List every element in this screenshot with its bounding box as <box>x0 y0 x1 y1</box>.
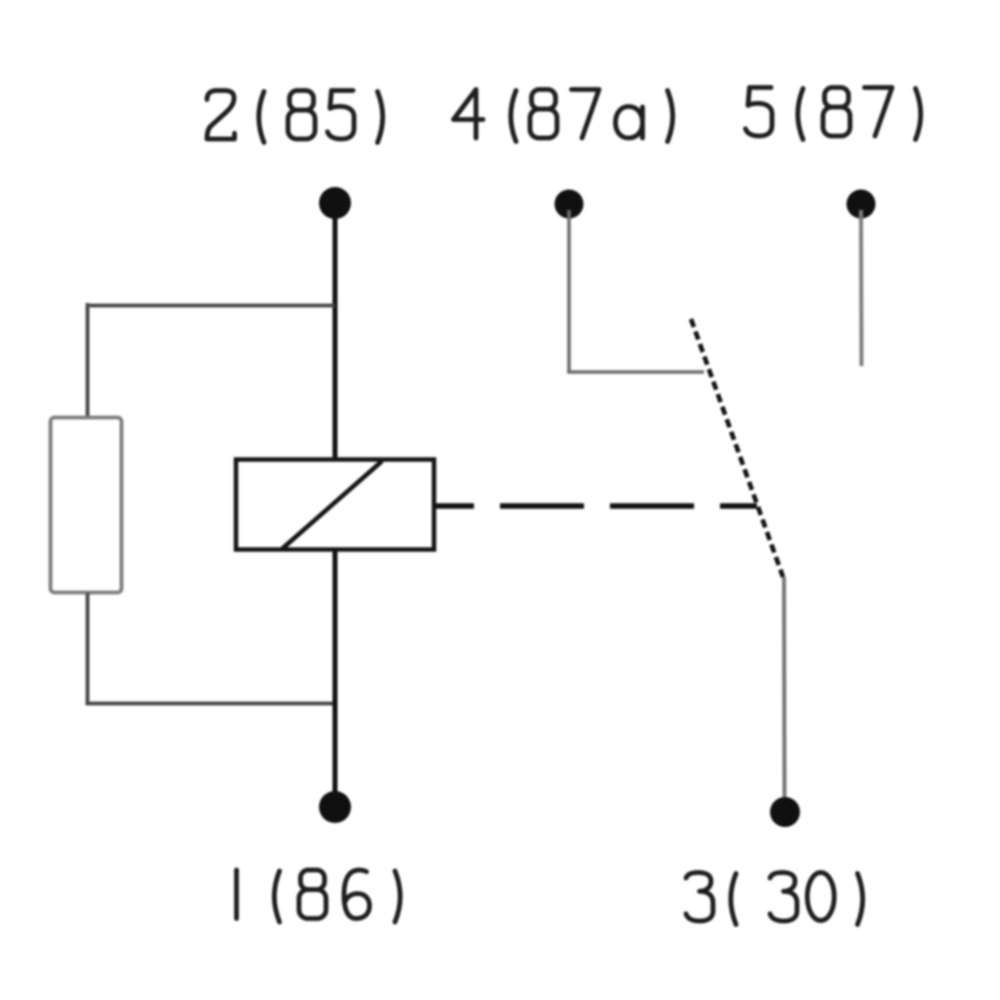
relay coil box <box>236 460 434 550</box>
wire left vertical upper <box>86 303 90 417</box>
node 1 terminal dot <box>319 791 351 823</box>
coil diagonal <box>283 462 381 548</box>
label 4(87a) <box>454 90 673 142</box>
wire blade to pin3 <box>782 577 787 797</box>
label 3(30) <box>686 873 863 925</box>
label 1(86) <box>237 870 401 922</box>
label 2(85) <box>207 91 383 143</box>
node 4 terminal dot <box>555 190 584 219</box>
label 5(87) <box>746 88 921 140</box>
wire left vertical lower <box>86 593 90 705</box>
wire pin4 vertical <box>567 210 571 372</box>
wire coil bottom to pin1 <box>333 550 338 795</box>
wire pin5 stub <box>859 210 864 366</box>
wire pin4 horizontal to contact <box>567 370 704 374</box>
node 5 terminal dot <box>847 190 876 219</box>
node 3 terminal dot <box>770 797 800 827</box>
switch blade (dotted) <box>691 319 783 577</box>
node 2 terminal dot <box>319 187 351 219</box>
wire pin2 to coil top <box>333 210 338 459</box>
wire top horizontal (85 branch to resistor) <box>90 304 336 308</box>
wire bottom horizontal (86 branch to resistor) <box>86 702 336 706</box>
resistor <box>51 418 122 593</box>
dashed actuation link <box>434 503 757 509</box>
